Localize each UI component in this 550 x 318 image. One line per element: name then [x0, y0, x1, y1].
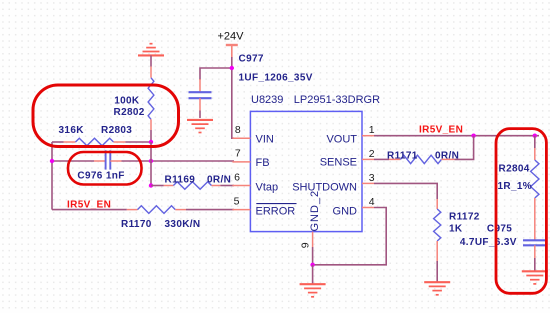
pin 1 VOUT [362, 135, 374, 137]
wire SHUTDOWN to R1172 [374, 183, 437, 199]
capacitor C975 [523, 239, 546, 241]
node pin9/pin4 junction [310, 263, 314, 267]
wire VOUT net (pin 1) [374, 135, 539, 137]
resistor R1171 [374, 158, 389, 160]
svg-text:100K: 100K [114, 95, 140, 106]
pin 2 SENSE [362, 158, 374, 160]
node R2802/R2803 junction [149, 140, 153, 144]
wire +24V to VIN pin 8 [232, 57, 234, 138]
svg-text:FB: FB [256, 157, 270, 169]
resistor R2803 [52, 141, 64, 143]
svg-text:9: 9 [299, 242, 311, 248]
svg-text:R2802: R2802 [114, 107, 145, 118]
svg-text:R1169: R1169 [165, 174, 196, 185]
svg-text:R2804: R2804 [499, 164, 530, 175]
resistor R1172 [436, 199, 438, 209]
highlight oval around R2802/R2803 [33, 85, 179, 147]
wire left vertical (R2803 to IR5V_EN row) [51, 142, 53, 210]
node C976 left junction [50, 159, 54, 163]
pin 4 GND [362, 207, 374, 209]
pin 3 SHUTDOWN [362, 182, 374, 184]
svg-text:SHUTDOWN: SHUTDOWN [292, 181, 357, 193]
svg-text:GND: GND [333, 205, 358, 217]
svg-text:GND_2: GND_2 [309, 190, 321, 232]
svg-text:R1171: R1171 [387, 151, 418, 162]
node R1169 branch [149, 183, 153, 187]
resistor R1169 [151, 185, 164, 187]
ground below R1172 [424, 281, 450, 283]
capacitor C976 [94, 160, 106, 162]
resistor R1170 [52, 209, 127, 211]
ground below pin 9 [300, 283, 326, 285]
svg-text:U8239: U8239 [251, 94, 283, 106]
svg-text:C977: C977 [239, 54, 264, 65]
svg-text:LP2951-33DRGR: LP2951-33DRGR [294, 94, 380, 106]
svg-text:C976 1nF: C976 1nF [77, 170, 124, 181]
svg-text:VIN: VIN [256, 133, 274, 145]
svg-text:8: 8 [235, 124, 241, 136]
svg-text:ERROR: ERROR [256, 205, 296, 217]
svg-text:R2803: R2803 [101, 125, 132, 136]
node R2804/VOUT junction [533, 134, 537, 138]
pin 7 FB [232, 161, 250, 163]
svg-text:7: 7 [235, 148, 241, 160]
svg-text:IR5V_EN: IR5V_EN [419, 125, 463, 136]
svg-text:Vtap: Vtap [256, 181, 279, 193]
node R1171/VOUT junction [471, 134, 475, 138]
wire branch to C977 [200, 68, 232, 80]
resistor R2802 [148, 78, 154, 120]
svg-text:R1170: R1170 [121, 219, 152, 230]
svg-text:2: 2 [369, 148, 375, 160]
IC U8239 LP2951-33DRGR regulator body [250, 111, 362, 231]
node junction at +24V/C977 [230, 66, 234, 70]
node FB/R2802 crossing junction [149, 159, 153, 163]
svg-text:C975: C975 [487, 224, 512, 235]
wire GND pin4 to pin9 [313, 208, 387, 265]
ground below C975 [522, 270, 548, 272]
svg-text:IR5V_EN: IR5V_EN [67, 199, 111, 210]
svg-text:1K: 1K [449, 224, 463, 235]
svg-text:+24V: +24V [218, 31, 245, 43]
wire R2802 node down to R1169 row [150, 142, 152, 186]
ground below C977 [187, 119, 213, 121]
pin 5 ERROR [232, 209, 250, 211]
svg-text:3: 3 [369, 172, 375, 184]
wire FB net row [52, 160, 94, 162]
highlight oval around C976 [68, 152, 142, 185]
svg-text:6: 6 [234, 171, 240, 183]
svg-text:1: 1 [369, 124, 375, 136]
capacitor C977 [199, 79, 201, 92]
pin 8 VIN [232, 137, 250, 139]
svg-text:0R/N: 0R/N [207, 174, 231, 185]
svg-text:5: 5 [234, 195, 240, 207]
svg-text:4.7UF_6.3V: 4.7UF_6.3V [460, 237, 517, 248]
resistor R2804 [534, 136, 536, 148]
svg-text:SENSE: SENSE [320, 157, 357, 169]
pin 9 GND_2 [312, 232, 314, 247]
svg-text:R1172: R1172 [449, 212, 480, 223]
svg-text:316K: 316K [59, 125, 85, 136]
svg-text:0R/N: 0R/N [435, 151, 459, 162]
svg-text:330K/N: 330K/N [165, 219, 201, 230]
svg-text:1UF_1206_35V: 1UF_1206_35V [239, 73, 313, 84]
svg-text:VOUT: VOUT [326, 133, 357, 145]
ground above R2802 (inverted) [138, 54, 164, 56]
pin 6 Vtap [232, 185, 250, 187]
highlight oval around R2804/C975 [496, 129, 546, 294]
svg-text:4: 4 [369, 196, 375, 208]
svg-text:1R_1%: 1R_1% [498, 181, 533, 192]
